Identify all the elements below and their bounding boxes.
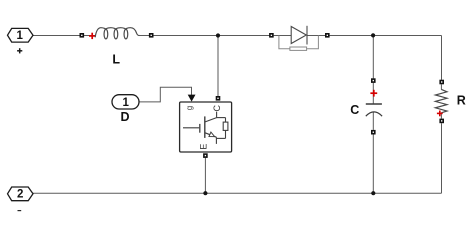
terminal square right of diode (325, 33, 330, 38)
terminal square bottom of R (439, 119, 444, 124)
svg-text:E: E (199, 144, 209, 150)
emitter arrowhead (209, 132, 215, 137)
junction bottom rail at IGBT branch (203, 191, 207, 195)
zigzag of R (435, 89, 447, 112)
gate plate bar (199, 124, 201, 133)
internal resistor top lead (225, 118, 227, 123)
inductor L (80, 28, 154, 67)
wire top-right corner down to resistor (441, 36, 443, 80)
svg-text:1: 1 (122, 97, 129, 109)
terminal square left of L (80, 33, 85, 38)
wire resistor bottom to bottom rail (441, 123, 443, 193)
wire gate signal from port D (139, 87, 192, 102)
port 1 (input +) hexagon (8, 28, 34, 42)
wire top rail: port1 to inductor (33, 36, 442, 194)
svg-text:C: C (350, 103, 359, 117)
IGBT U1 block (180, 95, 232, 158)
emitter diagonal (205, 133, 217, 138)
red + polarity mark of R (437, 111, 443, 117)
emitter horizontal (216, 137, 225, 139)
label + of port 1 (17, 48, 22, 53)
svg-text:1: 1 (16, 30, 23, 42)
wire capacitor internal top lead (372, 83, 374, 104)
snubber branch wires (279, 36, 319, 49)
junction top rail at capacitor branch (371, 33, 375, 37)
collector node vertical to C label (216, 112, 218, 118)
svg-text:g: g (185, 106, 194, 110)
capacitor curved bottom plate (366, 112, 382, 116)
svg-text:D: D (120, 110, 129, 124)
terminal square left of diode (269, 33, 274, 38)
wire cap junction down to capacitor (372, 36, 374, 79)
gate input arrowhead (188, 95, 196, 102)
collector horizontal to internal resistor (217, 117, 226, 119)
diode triangle (291, 27, 306, 44)
terminal square bottom of C (371, 130, 376, 135)
terminal square top of C (371, 78, 376, 83)
snubber resistor rectangle (290, 47, 307, 50)
IGBT block outline (180, 102, 232, 152)
red + polarity mark of C (370, 90, 377, 97)
IGBT internal symbol (183, 112, 228, 144)
terminal square right of L (149, 33, 154, 38)
wire junction to IGBT collector (vertical) (217, 36, 219, 97)
diode D1 (269, 26, 330, 51)
diode cathode bar (306, 26, 308, 45)
terminal square top of IGBT (collector) (216, 96, 221, 101)
wire diode anode lead (274, 35, 292, 37)
svg-text:2: 2 (17, 189, 23, 201)
capacitor top plate (366, 103, 382, 105)
svg-text:L: L (112, 53, 120, 67)
wire capacitor internal bottom lead (372, 112, 374, 130)
svg-text:R: R (457, 94, 466, 108)
svg-text:C: C (212, 105, 222, 112)
label - of port 2 (18, 210, 22, 212)
wire diode right to top-right corner (through cap junction) (330, 35, 442, 37)
port 2 (input -) hexagon (8, 187, 34, 201)
coil of L (95, 28, 139, 39)
gate lead (183, 127, 199, 129)
wire diode cathode lead (307, 35, 325, 37)
junction bottom rail at capacitor branch (371, 191, 375, 195)
red + polarity mark of L (89, 33, 95, 39)
wire bottom rail (33, 192, 442, 194)
emitter vertical lead (215, 137, 217, 144)
capacitor C (350, 78, 382, 134)
wire inductor right to diode left (through junction) (139, 35, 269, 37)
wire IGBT emitter to bottom rail (204, 158, 206, 194)
wire resistor top lead (440, 84, 442, 89)
wire resistor bottom lead (440, 113, 442, 119)
terminal square top of R (439, 80, 444, 85)
junction top rail at IGBT branch (216, 33, 220, 37)
wire inductor lead left (84, 35, 96, 37)
internal resistor rect (223, 122, 228, 130)
wire capacitor bottom to bottom rail (372, 134, 374, 193)
internal resistor bottom lead (225, 130, 227, 138)
resistor R (435, 80, 465, 124)
terminal square bottom of IGBT (emitter) (203, 153, 208, 158)
port D (gate signal input) (112, 95, 139, 125)
collector diagonal (205, 118, 217, 122)
body bar (204, 116, 206, 137)
